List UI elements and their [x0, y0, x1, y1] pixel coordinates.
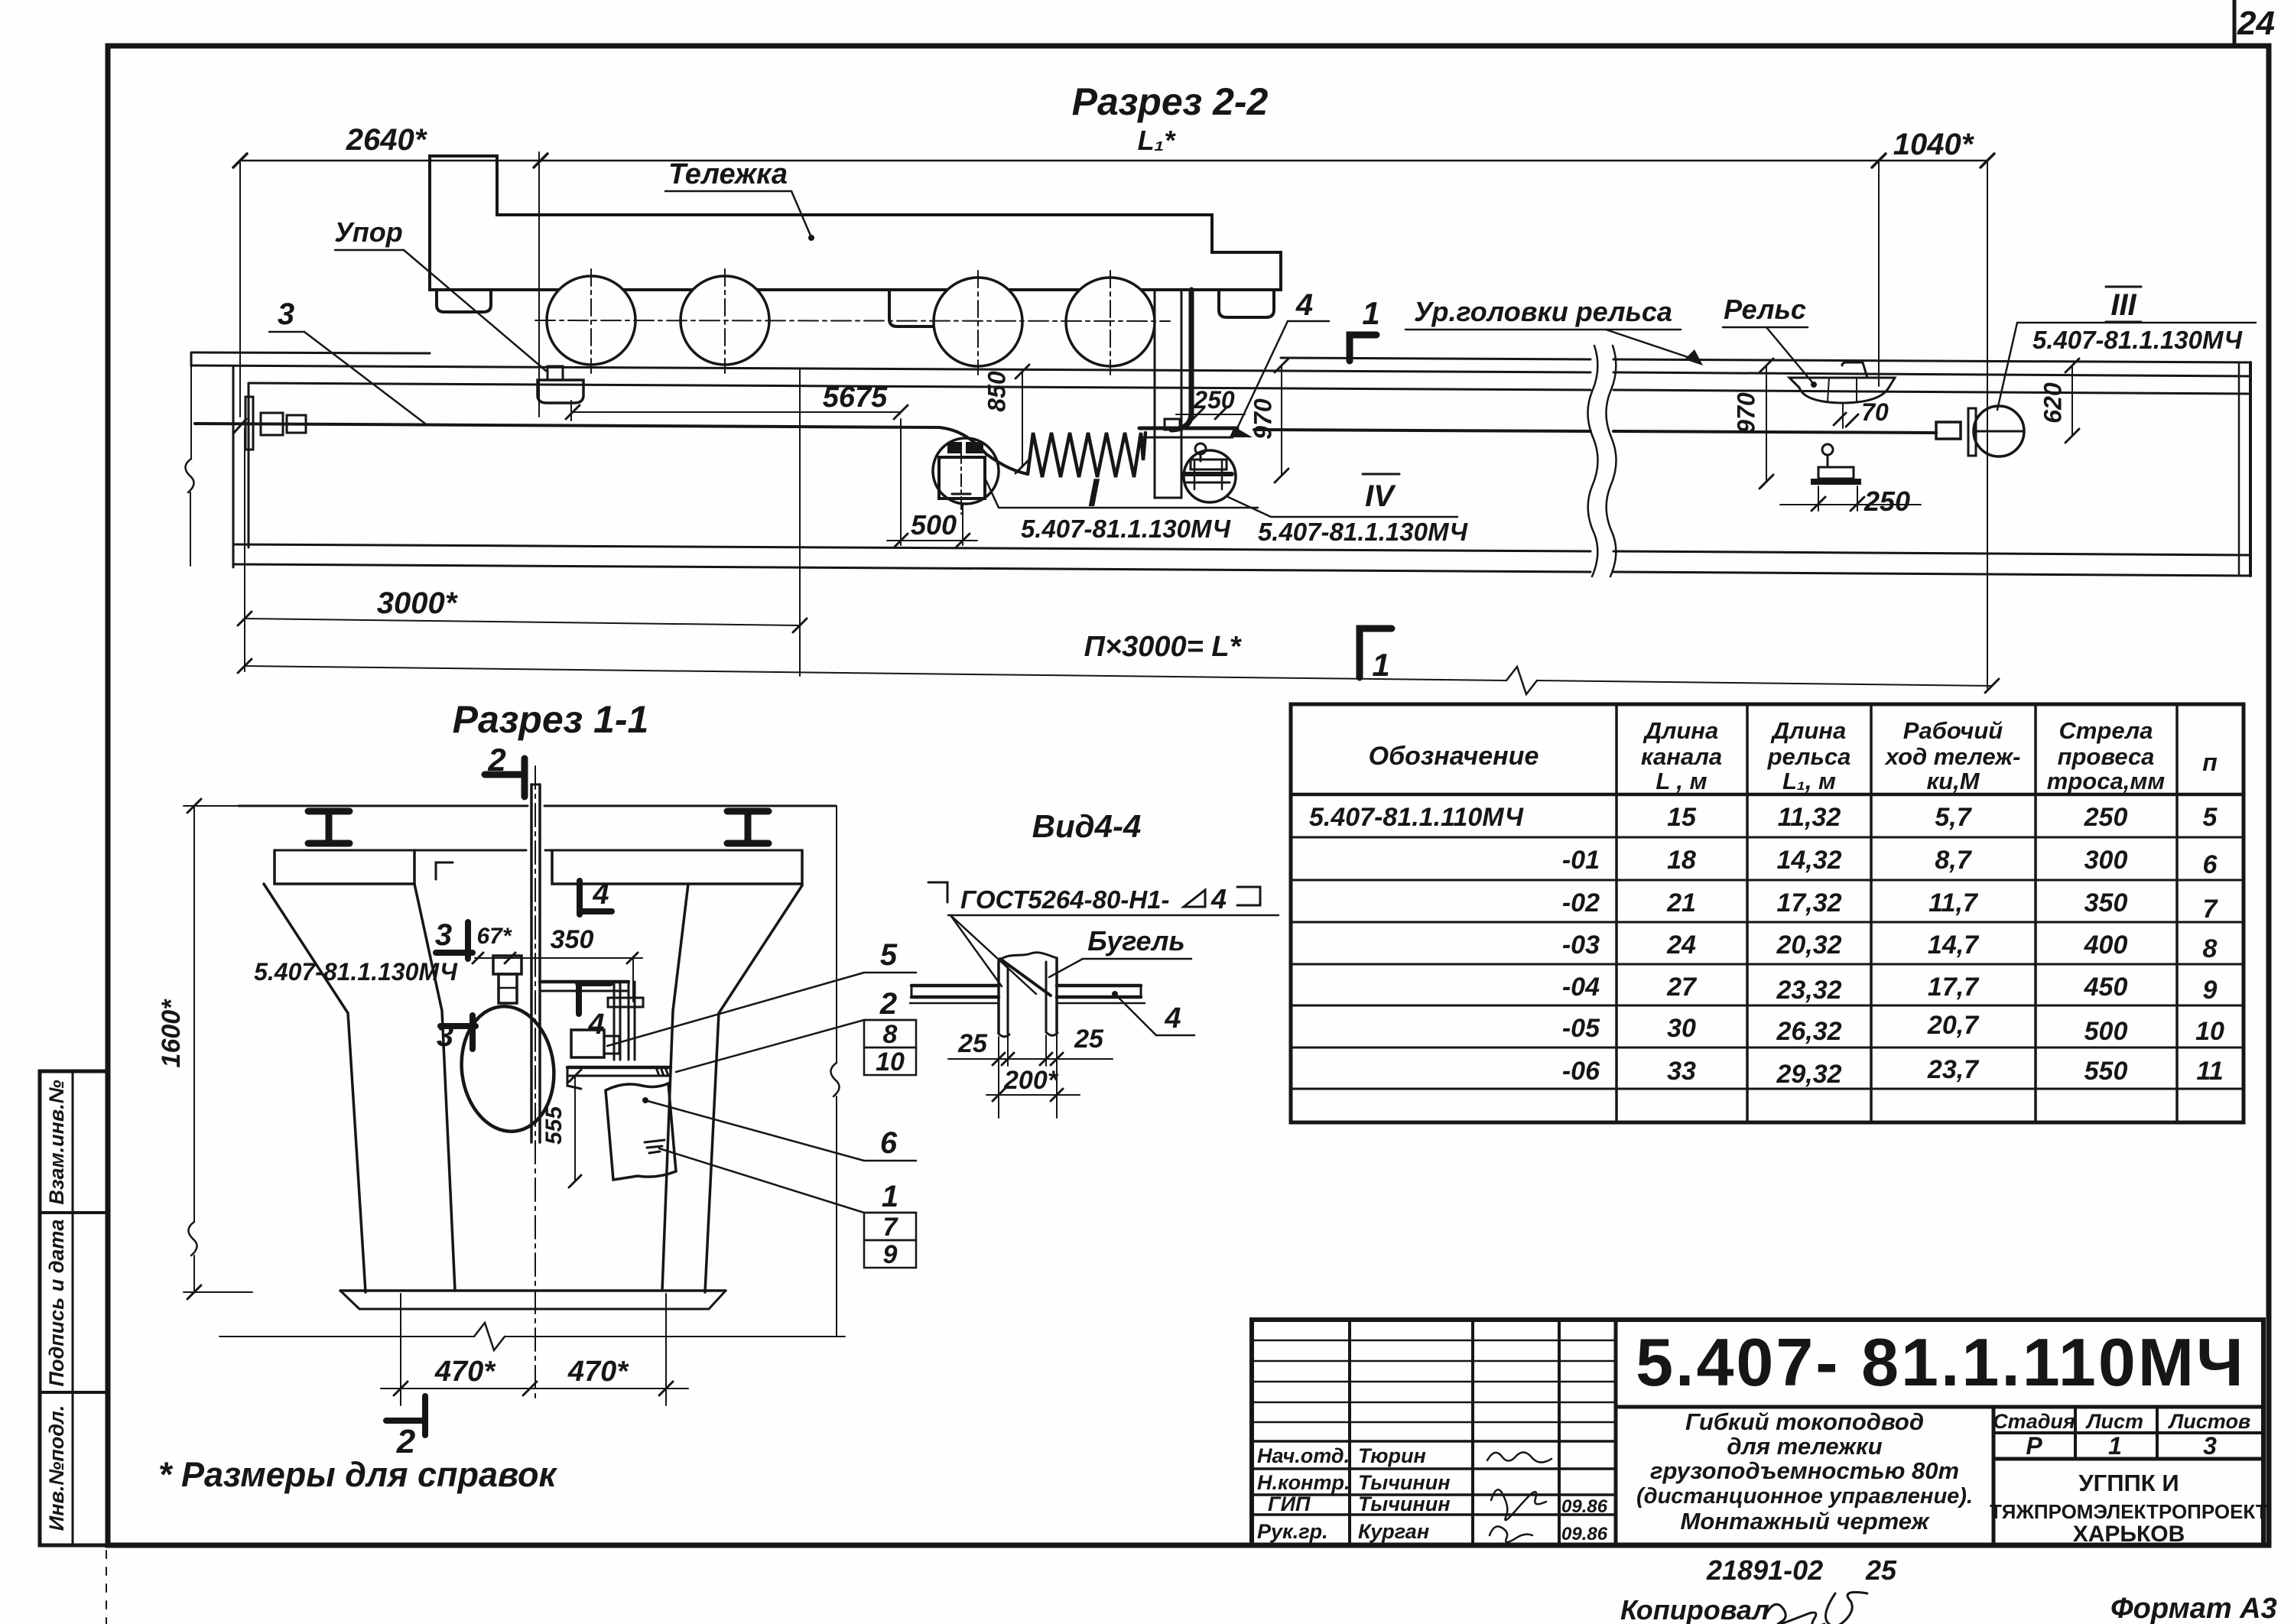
girder left end cap — [190, 353, 193, 366]
svg-text:3: 3 — [435, 918, 452, 952]
stop (Упор) block on rail — [538, 380, 583, 403]
svg-text:I: I — [1088, 471, 1100, 515]
svg-text:23,7: 23,7 — [1927, 1055, 1980, 1084]
weld designation — [928, 882, 947, 902]
svg-text:20,7: 20,7 — [1927, 1011, 1980, 1040]
svg-text:Длина: Длина — [1643, 717, 1719, 744]
left margin label boxes — [40, 1071, 108, 1545]
svg-text:L , м: L , м — [1656, 768, 1707, 794]
svg-text:Обозначение: Обозначение — [1369, 742, 1539, 771]
svg-text:26,32: 26,32 — [1776, 1017, 1841, 1046]
svg-text:09.86: 09.86 — [1561, 1524, 1608, 1544]
wheel center lines — [535, 320, 1170, 321]
svg-text:Рабочий: Рабочий — [1903, 717, 2003, 744]
svg-text:500: 500 — [2084, 1017, 2128, 1046]
svg-text:1: 1 — [2108, 1432, 2122, 1460]
table frame — [1291, 704, 2244, 1122]
svg-text:ГОСТ5264-80-Н1-: ГОСТ5264-80-Н1- — [960, 885, 1170, 914]
svg-text:Копировал: Копировал — [1620, 1594, 1769, 1624]
extension line rail right end — [1987, 161, 1988, 688]
svg-text:620: 620 — [2039, 382, 2066, 424]
svg-text:14,7: 14,7 — [1928, 931, 1980, 960]
bar right segment — [1057, 984, 1141, 988]
spring compensator coil — [1028, 433, 1145, 477]
svg-text:провеса: провеса — [2058, 743, 2155, 770]
svg-text:850: 850 — [983, 371, 1010, 412]
top slab line — [239, 805, 528, 807]
dim 620 — [2071, 365, 2073, 436]
svg-text:350: 350 — [2084, 888, 2128, 918]
svg-text:9: 9 — [2203, 976, 2218, 1005]
svg-text:3: 3 — [278, 297, 294, 331]
svg-text:III: III — [2110, 288, 2136, 322]
copier signature — [1766, 1592, 1867, 1624]
svg-text:300: 300 — [2084, 846, 2128, 875]
left outer wall — [264, 884, 366, 1292]
svg-text:5.407-81.1.130МЧ: 5.407-81.1.130МЧ — [2032, 326, 2243, 354]
leader shelf I — [985, 478, 1258, 508]
dim 970 right — [1766, 365, 1767, 482]
weld diagonal — [1000, 959, 1051, 996]
cable mid support stand — [1828, 419, 1830, 421]
signature scribbles — [1487, 1452, 1552, 1462]
svg-text:5.407-81.1.130МЧ: 5.407-81.1.130МЧ — [1021, 515, 1231, 543]
earth hatch mark — [645, 1140, 664, 1153]
svg-text:Упор: Упор — [334, 216, 402, 248]
svg-text:4: 4 — [587, 1009, 604, 1041]
wheel 3 — [934, 278, 1022, 366]
svg-text:п: п — [2202, 749, 2218, 776]
svg-text:Гибкий токоподвод: Гибкий токоподвод — [1685, 1408, 1924, 1435]
svg-text:470*: 470* — [434, 1356, 496, 1388]
shelf — [567, 1066, 671, 1070]
svg-text:Лист: Лист — [2085, 1410, 2143, 1433]
svg-text:Инв.№подл.: Инв.№подл. — [45, 1405, 68, 1531]
extension line stop — [538, 152, 540, 417]
svg-text:-06: -06 — [1562, 1057, 1600, 1086]
svg-text:470*: 470* — [567, 1356, 629, 1388]
svg-text:-02: -02 — [1562, 888, 1600, 918]
device center cross — [952, 493, 970, 495]
svg-text:14,32: 14,32 — [1776, 846, 1841, 875]
svg-text:70: 70 — [1861, 398, 1889, 426]
svg-text:1: 1 — [1362, 295, 1379, 331]
svg-text:200*: 200* — [1003, 1066, 1059, 1095]
svg-text:67*: 67* — [476, 924, 512, 949]
svg-text:550: 550 — [2084, 1057, 2128, 1086]
svg-text:Рельс: Рельс — [1724, 294, 1806, 325]
chain dimension line n x 3000 — [245, 666, 1506, 680]
svg-text:Вид4-4: Вид4-4 — [1032, 808, 1142, 844]
bugel strap — [999, 953, 1057, 961]
bottom dimension chain line — [219, 1336, 474, 1337]
svg-text:3000*: 3000* — [377, 586, 459, 620]
svg-text:Тычинин: Тычинин — [1358, 1471, 1451, 1494]
section mark 1 lower — [1360, 628, 1392, 677]
dim 3000* — [245, 619, 800, 625]
svg-text:Курган: Курган — [1358, 1520, 1429, 1543]
girder top flange line — [191, 365, 1591, 372]
trolley middle foot — [889, 290, 946, 326]
svg-text:8: 8 — [2203, 934, 2218, 963]
extension line circle III — [1878, 161, 1880, 386]
svg-text:25: 25 — [1074, 1025, 1104, 1054]
svg-text:24: 24 — [2237, 5, 2275, 42]
svg-text:ки,М: ки,М — [1926, 768, 1980, 794]
svg-text:11,7: 11,7 — [1928, 888, 1979, 918]
svg-text:УГППК И: УГППК И — [2078, 1470, 2179, 1496]
svg-text:11,32: 11,32 — [1778, 803, 1841, 832]
svg-text:10: 10 — [2195, 1017, 2224, 1046]
svg-text:21: 21 — [1666, 888, 1696, 918]
crane rail I-beam right — [727, 811, 768, 843]
svg-text:Формат А3: Формат А3 — [2110, 1593, 2277, 1624]
svg-text:350: 350 — [551, 925, 594, 954]
svg-text:Тележка: Тележка — [668, 158, 788, 190]
tension device I body — [939, 457, 985, 499]
svg-text:Монтажный чертеж: Монтажный чертеж — [1681, 1508, 1931, 1535]
svg-text:1: 1 — [1372, 647, 1389, 683]
girder bottom flange top line — [233, 544, 1591, 551]
svg-text:Рук.гр.: Рук.гр. — [1257, 1520, 1328, 1543]
table row lines — [1291, 836, 2244, 839]
dashed fold line below frame — [106, 1551, 107, 1624]
svg-text:рельса: рельса — [1767, 743, 1851, 770]
cable sag curve into spring — [939, 427, 1028, 474]
detail circle IV — [1184, 450, 1236, 502]
trolley body outline — [430, 156, 1281, 290]
svg-text:250: 250 — [1863, 486, 1910, 517]
left inner wall — [414, 884, 455, 1291]
dim 250 at collector — [1176, 414, 1245, 415]
svg-text:Разрез 2-2: Разрез 2-2 — [1072, 80, 1269, 123]
svg-text:Ур.головки рельса: Ур.головки рельса — [1414, 296, 1672, 327]
svg-text:3: 3 — [2203, 1432, 2217, 1460]
svg-text:8,7: 8,7 — [1935, 846, 1972, 875]
svg-text:4: 4 — [592, 879, 609, 911]
bracket wedge tip — [1230, 427, 1253, 437]
wheel 4 — [1066, 278, 1155, 366]
svg-text:5.407-81.1.130МЧ: 5.407-81.1.130МЧ — [1258, 518, 1468, 546]
section mark 2 bottom — [386, 1396, 425, 1435]
tick at cable anchor — [234, 419, 246, 433]
collector bracket lower line — [1139, 437, 1233, 439]
dim 250 right — [1780, 504, 1921, 505]
svg-text:9: 9 — [883, 1240, 898, 1269]
svg-text:6: 6 — [880, 1126, 898, 1160]
detail circle III — [1974, 406, 2024, 456]
cable left segment — [195, 424, 939, 427]
svg-text:5.407-81.1.130МЧ: 5.407-81.1.130МЧ — [254, 958, 458, 986]
dim 25 25 — [948, 1058, 1113, 1060]
svg-text:2: 2 — [879, 987, 897, 1021]
svg-text:15: 15 — [1667, 803, 1697, 832]
svg-text:970: 970 — [1249, 398, 1276, 440]
title block vertical lines — [1348, 1320, 1351, 1545]
trolley left buffer foot — [437, 290, 491, 312]
top dimension line — [240, 160, 1987, 162]
dim 850 — [1022, 372, 1023, 466]
wheel 2 — [681, 276, 769, 365]
collector shoe inside circle IV — [1191, 460, 1227, 469]
svg-text:Разрез 1-1: Разрез 1-1 — [453, 698, 649, 741]
dim 5675 — [573, 411, 901, 413]
break lines middle — [1587, 346, 1597, 577]
title block frame — [1252, 1320, 2263, 1545]
dim 1600* — [193, 806, 195, 1222]
svg-text:Подпись и дата: Подпись и дата — [45, 1220, 68, 1387]
svg-text:ход тележ-: ход тележ- — [1884, 743, 2021, 770]
svg-text:18: 18 — [1667, 846, 1696, 875]
left cable anchor plate — [245, 397, 253, 450]
table header bottom line — [1291, 793, 2244, 797]
small corner mark — [436, 862, 453, 879]
crane rail I-beam left — [308, 811, 349, 843]
svg-text:23,32: 23,32 — [1776, 976, 1841, 1005]
hanging plates — [613, 982, 616, 1060]
weld leader lines — [950, 915, 1002, 986]
device clamp small parts — [947, 442, 962, 453]
svg-text:Стадия: Стадия — [1993, 1410, 2075, 1433]
left girder end break — [190, 366, 192, 459]
runway girder rail line right of trolley — [1281, 358, 1591, 359]
svg-text:24: 24 — [1666, 931, 1696, 960]
right extension line — [836, 806, 837, 1063]
svg-text:400: 400 — [2084, 931, 2128, 960]
cable loop oval — [454, 1001, 561, 1136]
svg-text:20,32: 20,32 — [1776, 931, 1841, 960]
girder second line — [249, 383, 1591, 390]
small box on bracket — [1165, 419, 1180, 430]
svg-text:Нач.отд.: Нач.отд. — [1257, 1444, 1350, 1467]
svg-text:29,32: 29,32 — [1776, 1060, 1841, 1089]
svg-text:Тюрин: Тюрин — [1358, 1444, 1426, 1467]
svg-text:27: 27 — [1666, 973, 1698, 1002]
leader from circle III — [1997, 323, 2256, 410]
cable right segment — [1254, 430, 1591, 431]
svg-text:33: 33 — [1667, 1057, 1696, 1086]
svg-text:7: 7 — [883, 1213, 899, 1242]
collector arm thick tube — [1171, 290, 1191, 430]
pole centerline — [535, 766, 536, 1401]
dim 500 — [887, 540, 977, 541]
svg-text:970: 970 — [1732, 392, 1759, 434]
svg-text:4: 4 — [1295, 288, 1313, 322]
svg-text:30: 30 — [1667, 1014, 1696, 1043]
hatched plate 6 — [606, 1083, 676, 1180]
extension lines — [998, 1037, 999, 1118]
girder bottom flange bottom line — [233, 564, 1591, 572]
bracket arm — [540, 980, 629, 984]
dim 555 — [574, 1076, 576, 1181]
svg-text:25: 25 — [1865, 1554, 1897, 1586]
leader shelf IV — [1228, 497, 1457, 517]
svg-text:канала: канала — [1641, 743, 1722, 770]
table column lines — [1615, 704, 1618, 1122]
svg-text:5.407-81.1.110МЧ: 5.407-81.1.110МЧ — [1309, 803, 1524, 832]
runway girder top rail line left — [191, 352, 430, 353]
svg-text:Π×3000= L*: Π×3000= L* — [1084, 631, 1243, 663]
tension device I circle — [933, 438, 999, 504]
svg-text:ГИП: ГИП — [1268, 1492, 1311, 1515]
svg-text:IV: IV — [1365, 479, 1396, 513]
svg-text:4: 4 — [1164, 1002, 1181, 1034]
svg-text:7: 7 — [2203, 895, 2219, 924]
svg-text:25: 25 — [957, 1029, 988, 1058]
right inner wall — [662, 884, 688, 1291]
dim 200* — [986, 1094, 1080, 1096]
svg-text:17,32: 17,32 — [1776, 888, 1841, 918]
svg-text:Тычинин: Тычинин — [1358, 1492, 1451, 1515]
svg-text:-03: -03 — [1562, 931, 1600, 960]
svg-text:троса,мм: троса,мм — [2047, 768, 2165, 794]
svg-text:5.407- 81.1.110МЧ: 5.407- 81.1.110МЧ — [1636, 1324, 2246, 1400]
channel floor — [340, 1289, 726, 1292]
svg-text:1600*: 1600* — [157, 999, 186, 1068]
trolley right foot — [1219, 290, 1274, 317]
svg-text:21891-02: 21891-02 — [1706, 1554, 1823, 1586]
right cable anchor boxes — [1936, 422, 1961, 439]
pole clamp upper — [493, 956, 522, 974]
slab underside line — [275, 849, 526, 852]
rail clamp pad on girder — [1842, 362, 1867, 378]
svg-text:Стрела: Стрела — [2058, 717, 2153, 744]
svg-text:5: 5 — [2203, 803, 2218, 832]
svg-text:5: 5 — [880, 938, 898, 972]
right bearing slab — [552, 850, 802, 884]
right outer wall — [705, 885, 802, 1292]
title block horizontal lines — [1616, 1405, 2263, 1409]
svg-text:8: 8 — [883, 1020, 898, 1049]
extension line left anchor — [239, 161, 241, 417]
girder right end cap — [2249, 362, 2252, 576]
svg-text:500: 500 — [911, 509, 957, 541]
svg-text:6: 6 — [2203, 850, 2218, 879]
svg-text:11: 11 — [2196, 1057, 2223, 1086]
bar left segment — [911, 984, 999, 988]
svg-text:09.86: 09.86 — [1561, 1496, 1608, 1517]
svg-text:555: 555 — [541, 1106, 567, 1145]
svg-text:Н.контр.: Н.контр. — [1257, 1471, 1350, 1494]
svg-text:Длина: Длина — [1770, 717, 1847, 744]
svg-text:L₁, м: L₁, м — [1782, 768, 1836, 794]
left anchor box 2 — [287, 415, 306, 433]
current collector housing — [1155, 290, 1181, 498]
svg-text:-04: -04 — [1562, 973, 1600, 1002]
svg-text:(дистанционное управление).: (дистанционное управление). — [1636, 1484, 1973, 1509]
svg-text:грузоподъемностью 80т: грузоподъемностью 80т — [1650, 1457, 1959, 1484]
cable hanger support right — [1830, 466, 1832, 468]
svg-text:Листов: Листов — [2168, 1410, 2251, 1433]
svg-text:* Размеры для справок: * Размеры для справок — [158, 1455, 558, 1494]
dim 470* 470* — [381, 1388, 688, 1389]
svg-text:1040*: 1040* — [1893, 128, 1975, 161]
svg-text:1: 1 — [882, 1180, 898, 1213]
svg-text:5675: 5675 — [823, 382, 888, 414]
svg-text:5,7: 5,7 — [1935, 803, 1972, 832]
svg-text:17,7: 17,7 — [1928, 973, 1980, 1002]
device block — [571, 1030, 604, 1057]
suspension pole — [530, 784, 533, 1142]
svg-text:250: 250 — [1193, 386, 1235, 414]
svg-text:4: 4 — [1210, 883, 1227, 914]
svg-text:Р: Р — [2026, 1432, 2042, 1460]
bolt with ring — [1195, 443, 1206, 454]
svg-text:450: 450 — [2084, 973, 2128, 1002]
svg-text:Бугель: Бугель — [1087, 925, 1185, 957]
svg-text:-05: -05 — [1562, 1014, 1600, 1043]
svg-text:-01: -01 — [1562, 846, 1600, 875]
left anchor box 1 — [261, 413, 283, 435]
dim 970 left — [1281, 365, 1282, 476]
svg-text:для тележки: для тележки — [1727, 1433, 1882, 1460]
wheel 1 — [547, 276, 635, 365]
svg-text:10: 10 — [876, 1047, 905, 1077]
svg-text:ХАРЬКОВ: ХАРЬКОВ — [2073, 1522, 2185, 1547]
left bearing slab — [275, 850, 414, 884]
page number box line top right — [2233, 0, 2237, 46]
svg-text:ТЯЖПРОМЭЛЕКТРОПРОЕКТ: ТЯЖПРОМЭЛЕКТРОПРОЕКТ — [1990, 1500, 2268, 1523]
collector bracket upper line — [1139, 427, 1237, 430]
svg-text:Взам.инв.№: Взам.инв.№ — [45, 1080, 68, 1204]
svg-text:L₁*: L₁* — [1138, 125, 1177, 156]
svg-text:250: 250 — [2084, 803, 2128, 832]
svg-text:2640*: 2640* — [346, 123, 428, 157]
